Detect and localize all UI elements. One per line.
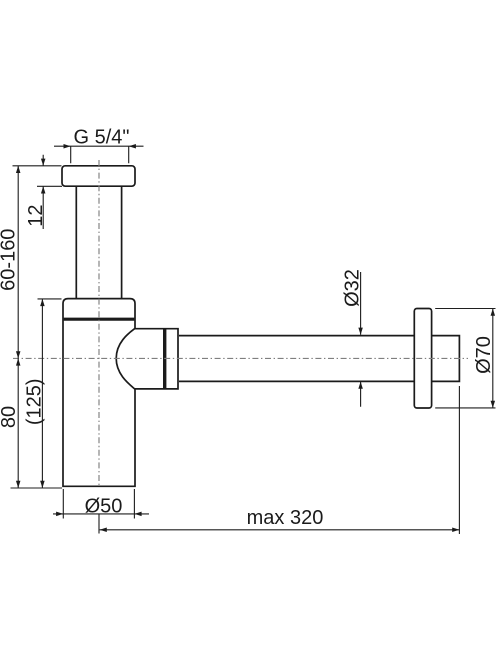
horizontal axis	[13, 357, 468, 359]
D32 dim lines	[360, 272, 362, 407]
trap body with cap	[63, 299, 135, 487]
D50 arrows	[56, 512, 63, 517]
max320 arrows	[100, 528, 107, 533]
outlet elbow nut	[116, 329, 178, 389]
D70 dim line	[492, 309, 494, 408]
D70 arrows	[491, 309, 496, 316]
cap seam thick line	[64, 318, 135, 321]
vertical inlet pipe	[76, 187, 121, 299]
12 ext lines	[13, 166, 63, 187]
svg-text:(125): (125)	[23, 378, 45, 425]
svg-text:Ø50: Ø50	[85, 496, 123, 518]
svg-text:12: 12	[25, 204, 47, 226]
svg-text:G 5/4": G 5/4"	[73, 127, 129, 149]
elbow seam thick bar	[163, 329, 166, 389]
G 5/4 ext lines	[71, 146, 129, 163]
60-160 dim line	[17, 166, 19, 359]
vertical axis	[98, 160, 100, 488]
top flange nut	[62, 166, 135, 186]
125 dim line	[41, 299, 43, 488]
svg-text:60-160: 60-160	[0, 229, 20, 291]
svg-text:80: 80	[0, 406, 20, 428]
max320 ext lines	[99, 386, 459, 534]
arrowheads	[16, 144, 495, 532]
60-160 arrows	[16, 166, 21, 173]
125 arrows	[40, 299, 45, 306]
svg-text:max 320: max 320	[247, 507, 324, 529]
12 dim lines	[42, 155, 44, 229]
G 5/4 dim line	[54, 145, 144, 147]
dimensions	[11, 146, 496, 534]
body outline group	[62, 166, 459, 487]
svg-text:Ø70: Ø70	[473, 336, 495, 374]
80 dim line	[17, 358, 19, 488]
centerlines	[13, 160, 468, 488]
G 5/4 arrows	[64, 144, 71, 149]
wall flange	[414, 309, 431, 409]
D50 dim line	[53, 513, 149, 515]
max320 dim line	[100, 529, 460, 531]
svg-text:Ø32: Ø32	[342, 269, 364, 307]
80 arrows	[16, 358, 21, 365]
D70 ext lines	[435, 309, 495, 408]
12 arrows	[41, 159, 46, 166]
125 ext lines	[11, 299, 63, 488]
horizontal outlet pipe	[179, 336, 459, 382]
D32 arrows	[358, 328, 363, 335]
D50 ext lines	[63, 489, 134, 519]
